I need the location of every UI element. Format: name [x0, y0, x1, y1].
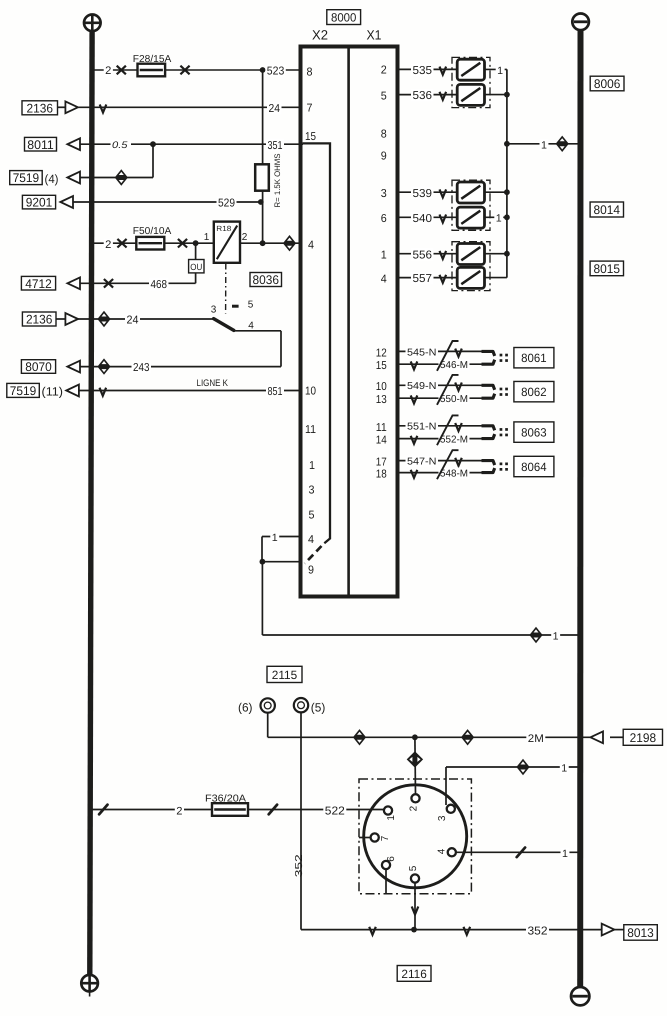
wire number 535: [411, 64, 434, 77]
off-page ref box 2136 (top): [22, 101, 58, 115]
svg-text:8036: 8036: [253, 273, 280, 287]
off-page arrow 9201: [60, 196, 73, 208]
drop from ring 6: [267, 712, 269, 737]
OU alternative box: [189, 260, 204, 273]
svg-text:15: 15: [305, 131, 316, 143]
wire 557 output: [485, 277, 507, 279]
wire to X2 pin 9: [262, 561, 301, 563]
inline connector diamond on ground link: [529, 627, 542, 643]
svg-text:1: 1: [497, 65, 503, 77]
wire 2: +bus to relay R18 pin 1: [92, 242, 214, 244]
svg-text:(4): (4): [45, 172, 59, 186]
junction OU branch: [193, 240, 199, 246]
wire number 24: [125, 314, 140, 327]
pin 6 drop: [385, 869, 387, 893]
connector V mark: [100, 105, 107, 113]
battery negative terminal bottom-right: [571, 987, 589, 1005]
connector V mark on 556: [440, 251, 447, 259]
ref box 8036: [250, 273, 282, 287]
wire number 551-N: [406, 421, 439, 433]
connector V mark 551-N: [455, 423, 462, 431]
off-page ref box 8070: [21, 360, 55, 374]
svg-text:7519: 7519: [10, 384, 37, 398]
svg-text:546-M: 546-M: [440, 360, 468, 371]
drop to pin 3: [445, 767, 447, 805]
ECU internal link box: [303, 143, 330, 543]
wire label 1 on ground link: [551, 630, 560, 642]
riser joining 8011 wire: [152, 144, 154, 177]
drop to ground link wire: [261, 562, 263, 635]
twisted pair slash 8063: [437, 415, 459, 445]
wire number 351: [266, 139, 284, 152]
battery negative terminal top-right: [572, 13, 589, 30]
branch to connector pin 2: [414, 737, 417, 794]
splice X on F50 wire: [117, 239, 126, 248]
svg-text:2115: 2115: [272, 668, 298, 682]
connector 2116 pin 5: [411, 874, 419, 882]
splice slash after bus: [99, 805, 107, 815]
wire 552-M: X1 to sensor 8063: [398, 438, 482, 440]
connector dots 8063: [500, 428, 503, 431]
svg-text:7: 7: [380, 835, 391, 841]
svg-text:352: 352: [528, 925, 548, 937]
svg-text:11: 11: [305, 424, 316, 436]
branch wire resistor to relay output: [262, 191, 264, 243]
wire 547-N: X1 to sensor 8064: [398, 460, 482, 462]
connector 2116 dash-dot box: [359, 779, 471, 894]
wire 24: to ECU X2 pin 7: [78, 106, 301, 108]
wire 7519-4 to junction: [80, 177, 153, 179]
wire 548-M: X1 to sensor 8064: [398, 472, 482, 474]
splice X on wire 523: [117, 66, 126, 75]
inline diamond 1 on 2M wire: [353, 729, 366, 745]
off-page arrow 8011: [67, 138, 80, 150]
svg-text:545-N: 545-N: [407, 347, 437, 358]
wire label 1 (pin4 wire): [561, 848, 570, 860]
svg-text:8061: 8061: [521, 351, 547, 365]
branch to OU box: [195, 243, 197, 259]
svg-text:R= 1.5K OHMS: R= 1.5K OHMS: [273, 154, 282, 208]
svg-text:10: 10: [376, 381, 387, 393]
connector dots 8062: [500, 388, 503, 391]
wire number 546-M: [439, 359, 470, 371]
battery positive terminal bottom-left: [81, 975, 98, 992]
wire 546-M: X1 to sensor 8061: [398, 363, 482, 365]
wire 536: X1 to injector: [398, 94, 459, 96]
svg-text:523: 523: [267, 66, 285, 78]
wire number 545-N: [406, 346, 439, 358]
connector V mark 550-M: [411, 395, 418, 403]
connector V mark 546-M: [411, 361, 418, 369]
off-page ref box 7519 (11): [7, 383, 40, 397]
svg-text:5: 5: [309, 510, 315, 522]
svg-text:8013: 8013: [627, 926, 654, 940]
connector V mark on 557: [440, 275, 447, 283]
connector hook 552-M: [482, 434, 495, 439]
connector V mark 545-N: [455, 349, 462, 357]
svg-text:24: 24: [127, 315, 140, 327]
wire number 352: [526, 924, 549, 937]
svg-text:851: 851: [268, 386, 283, 398]
svg-text:536: 536: [413, 90, 433, 102]
wire contact4 horizontal: [234, 330, 281, 332]
svg-text:12: 12: [376, 347, 387, 359]
wire label 1 on 535 output: [496, 64, 505, 76]
wire number 557: [411, 272, 434, 285]
svg-text:550-M: 550-M: [440, 394, 468, 405]
junction 540: [504, 214, 510, 220]
wire pin 4 to right bus: [456, 851, 578, 853]
wire 2/522: +bus to connector pin 1: [92, 809, 384, 811]
connector 2116 pin 7: [371, 833, 379, 841]
svg-text:1: 1: [562, 848, 568, 860]
svg-text:2M: 2M: [528, 733, 544, 745]
connector dots 8064: [500, 463, 503, 466]
twisted pair slash 8061: [437, 341, 459, 371]
wire number 550-M: [439, 393, 470, 405]
wire number 548-M: [439, 468, 470, 480]
terminal ring (5): [294, 698, 308, 712]
wire 551-N: X1 to sensor 8063: [398, 425, 482, 427]
junction 8011/7519 branch: [150, 141, 156, 147]
sensor ref box 8063: [514, 422, 554, 442]
sensor ref box 8064: [514, 456, 554, 476]
connector 2116 pin 4: [448, 848, 456, 856]
wire 851 LIGNE K: [79, 390, 301, 392]
connector V mark on 535: [440, 67, 447, 75]
relay switch blade: [214, 319, 234, 331]
svg-text:1: 1: [309, 460, 315, 472]
off-page ref box 9201: [22, 195, 55, 209]
svg-text:4: 4: [381, 274, 388, 286]
connector V mark pin5 drop: [412, 907, 419, 915]
svg-text:R18: R18: [216, 224, 231, 233]
inline connector diamond to pin4: [283, 235, 296, 251]
connector V mark 1: [369, 927, 376, 935]
svg-text:8064: 8064: [521, 460, 547, 474]
svg-text:2: 2: [408, 805, 419, 811]
wire 540 output: [485, 216, 507, 218]
inline connector diamond: [115, 169, 128, 185]
svg-text:2136: 2136: [26, 313, 53, 327]
svg-text:557: 557: [413, 273, 433, 285]
inline connector diamond to ground bus: [556, 136, 569, 152]
wire to connector pin 3: [446, 766, 578, 768]
sensor ref box 8061: [514, 348, 554, 368]
splice X after fuse F50: [178, 239, 187, 248]
connector V mark on 540: [440, 215, 447, 223]
wire label 1 (pin3 wire): [560, 762, 569, 774]
wire number 523: [265, 64, 286, 77]
svg-text:1: 1: [204, 232, 210, 243]
svg-text:LIGNE K: LIGNE K: [197, 378, 229, 389]
off-page ref box 4712: [21, 276, 55, 290]
svg-text:3: 3: [381, 188, 387, 200]
svg-text:(11): (11): [42, 385, 64, 399]
off-page ref box 7519: [10, 171, 43, 185]
svg-text:539: 539: [413, 188, 433, 200]
wire label 2M: [526, 732, 545, 744]
connector V mark 549-N: [455, 383, 462, 391]
junction 529/resistor branch: [258, 199, 264, 205]
battery positive terminal top-left: [84, 14, 101, 31]
svg-text:8063: 8063: [521, 426, 547, 440]
wire 243: [80, 366, 281, 368]
wire 550-M: X1 to sensor 8062: [398, 397, 482, 399]
injector collector line: [506, 69, 508, 277]
wire number 556: [411, 248, 434, 261]
svg-text:F28/15A: F28/15A: [133, 54, 172, 65]
svg-text:24: 24: [269, 103, 281, 115]
off-page arrow 7519-4: [67, 172, 80, 184]
svg-text:540: 540: [413, 213, 433, 225]
pin 7 stub: [359, 837, 371, 839]
wire 539: X1 to injector: [398, 191, 459, 193]
connector V mark on 539: [440, 189, 447, 197]
left +12V bus: [90, 31, 92, 975]
splice slash after fuse: [269, 805, 277, 815]
off-page arrow 2136 top: [65, 101, 78, 113]
wire 0.5/351: to ECU X2 pin 15: [80, 143, 303, 145]
wire 2M to connector 2198: [268, 736, 591, 738]
wire gauge label 2: [175, 805, 184, 817]
svg-text:15: 15: [376, 360, 387, 372]
fuse F36/20A: [212, 803, 248, 816]
svg-text:352: 352: [294, 854, 305, 878]
ECU internal link dashed diagonal: [305, 546, 322, 564]
wire number 536: [411, 89, 434, 102]
terminal ring (6): [261, 698, 275, 712]
wire 556: X1 to injector: [398, 253, 459, 255]
relay R18 box: [214, 222, 240, 263]
stub box to arrow: [56, 318, 65, 320]
wire number 468: [149, 278, 169, 291]
right ground bus: [577, 30, 583, 987]
splice X after fuse F28: [180, 66, 189, 75]
connector V mark 548-M: [411, 470, 418, 478]
wire label 1 (pin4): [270, 532, 279, 544]
junction relay output / resistor branch: [260, 240, 266, 246]
svg-text:547-N: 547-N: [407, 457, 437, 468]
stub to 8013 box: [614, 929, 624, 931]
svg-text:(6): (6): [238, 700, 253, 714]
off-page arrow 8070: [67, 361, 80, 373]
svg-text:551-N: 551-N: [407, 422, 437, 433]
branch wire 523 to resistor: [262, 70, 264, 166]
inline diamond 2 on 2M wire: [461, 729, 474, 745]
wire label 1: [540, 139, 549, 151]
svg-text:F50/10A: F50/10A: [133, 226, 172, 237]
connector hook 550-M: [482, 394, 495, 399]
connector V mark 552-M: [411, 436, 418, 444]
relay winding diagonal: [217, 226, 237, 260]
wire relay pin2 to X2 pin 4: [240, 242, 301, 244]
svg-text:8070: 8070: [25, 360, 52, 374]
sensor ref box 8062: [514, 381, 554, 401]
wire number 539: [411, 187, 434, 200]
injection resistor pair 2 (539/540): [452, 180, 490, 230]
wire 539 output: [485, 191, 507, 193]
svg-text:8000: 8000: [331, 11, 357, 25]
off-page arrow 2136 second: [65, 313, 78, 325]
svg-text:522: 522: [325, 805, 345, 817]
connector hook 548-M: [482, 468, 495, 473]
svg-text:548-M: 548-M: [440, 469, 468, 480]
wire 549-N: X1 to sensor 8062: [398, 384, 482, 386]
svg-text:X2: X2: [312, 28, 328, 43]
off-page arrow 8013: [602, 924, 615, 936]
wire size label 0.5: [111, 140, 132, 151]
off-page ref box 8013: [624, 925, 658, 941]
svg-text:7: 7: [307, 103, 313, 115]
svg-text:8011: 8011: [27, 138, 54, 152]
ref box 8015: [590, 261, 623, 276]
svg-text:468: 468: [151, 279, 168, 291]
wire 1 to X2 pin 4: [262, 536, 301, 538]
connector V mark: [100, 388, 107, 396]
svg-text:9: 9: [308, 565, 314, 577]
contact 5 tick: [232, 305, 239, 308]
svg-text:F36/20A: F36/20A: [205, 793, 246, 804]
wire 24 to relay contact 3: [78, 318, 214, 320]
wire 529: to resistor branch: [73, 201, 261, 203]
svg-text:8: 8: [381, 129, 387, 141]
connector V mark 547-N: [455, 458, 462, 466]
off-page ref box 8011: [25, 137, 57, 151]
svg-text:6: 6: [381, 213, 387, 225]
connector dots 8061: [500, 354, 503, 357]
wire 352 to 8013: [301, 929, 602, 931]
junction pin2 branch: [412, 734, 418, 740]
svg-text:13: 13: [376, 394, 387, 406]
svg-text:529: 529: [218, 198, 235, 210]
svg-text:4712: 4712: [25, 277, 52, 291]
connector V mark 2: [464, 927, 471, 935]
wire contact4 drop: [280, 331, 282, 367]
svg-text:2116: 2116: [401, 967, 427, 981]
svg-text:3: 3: [309, 485, 315, 497]
stub box to arrow: [58, 106, 66, 108]
svg-text:5: 5: [248, 300, 254, 311]
svg-text:3: 3: [437, 815, 448, 821]
svg-text:556: 556: [413, 249, 433, 261]
wire gauge label 2: [104, 238, 113, 250]
corner drop pin4 wire: [261, 537, 263, 562]
svg-text:1: 1: [561, 763, 567, 775]
connector 2116 pin 2: [411, 794, 419, 802]
connector 2116 pin 3: [447, 805, 455, 813]
wire number 549-N: [406, 380, 439, 392]
svg-text:2: 2: [105, 239, 111, 251]
branch OU to wire 468: [195, 273, 197, 283]
svg-text:17: 17: [376, 457, 387, 469]
ground link wire to right bus: [262, 634, 577, 636]
wire 540: X1 to injector: [398, 216, 459, 218]
svg-text:2: 2: [105, 65, 111, 77]
svg-text:5: 5: [381, 91, 387, 103]
ref box 8006: [590, 76, 624, 91]
inline vertical diamond: [407, 751, 423, 767]
wire number 851: [266, 385, 284, 398]
injector feed to ground bus: [507, 143, 578, 145]
svg-text:10: 10: [305, 386, 316, 398]
svg-text:243: 243: [133, 362, 150, 374]
off-page arrow 2198: [590, 731, 603, 743]
svg-text:2198: 2198: [630, 731, 657, 745]
off-page arrow 4712: [67, 277, 80, 289]
inline connector diamond: [97, 358, 110, 374]
off-page ref box 2136 (second): [22, 312, 56, 326]
ECU block outline: [301, 47, 398, 597]
svg-text:6: 6: [386, 856, 397, 862]
svg-text:4: 4: [437, 848, 448, 854]
junction collector/feed: [504, 141, 510, 147]
svg-text:X1: X1: [367, 28, 382, 43]
wire 545-N: X1 to sensor 8061: [398, 350, 482, 352]
svg-text:9: 9: [381, 151, 387, 163]
drop 352 from ring 5: [300, 712, 302, 930]
wire number 540: [411, 212, 434, 225]
wire 2/523: +bus to ECU X2 pin 8: [92, 69, 301, 71]
junction pin5/352: [411, 927, 417, 933]
svg-text:7519: 7519: [13, 171, 40, 185]
wire 557: X1 to injector: [398, 277, 459, 279]
svg-text:2136: 2136: [27, 101, 54, 115]
ref box 2115: [267, 666, 302, 682]
wire 535: X1 to injector: [398, 68, 459, 70]
splice slash pin4 wire: [517, 848, 525, 858]
injection resistor pair 1 (535/536): [452, 57, 490, 107]
connector hook 545-N: [482, 351, 495, 356]
connector hook 547-N: [482, 461, 495, 466]
resistor 1.5K: [255, 164, 269, 190]
wire number 529: [217, 196, 237, 209]
connector 2116 pin 1: [384, 806, 392, 814]
svg-text:8062: 8062: [521, 385, 547, 399]
off-page arrow 7519-11: [66, 385, 79, 397]
wire 556 output: [485, 253, 507, 255]
svg-text:11: 11: [376, 422, 387, 434]
inline connector diamond: [97, 311, 110, 327]
pin 5 drop: [414, 883, 416, 930]
svg-text:1: 1: [272, 532, 278, 544]
svg-text:2: 2: [176, 805, 182, 817]
svg-text:8015: 8015: [594, 262, 621, 276]
inline diamond pin3 wire: [516, 759, 529, 775]
wire number 552-M: [439, 434, 470, 446]
svg-text:535: 535: [413, 65, 433, 77]
junction 523 / resistor branch: [260, 67, 266, 73]
wire number 547-N: [406, 456, 439, 468]
svg-text:3: 3: [211, 305, 217, 316]
svg-text:0.5: 0.5: [112, 140, 128, 151]
wire 536 output: [485, 94, 507, 96]
connector 2116 circle: [364, 785, 467, 888]
relay actuator dash-dot link: [225, 264, 227, 314]
svg-text:9201: 9201: [26, 196, 53, 210]
splice X on wire 468: [104, 279, 113, 288]
svg-text:4: 4: [308, 240, 315, 252]
svg-text:18: 18: [376, 468, 387, 480]
svg-text:8: 8: [307, 67, 313, 79]
svg-text:2: 2: [242, 232, 248, 243]
wire number 522: [323, 804, 346, 817]
injection resistor pair 3 (556/557): [452, 242, 490, 291]
svg-text:8014: 8014: [594, 203, 621, 217]
connector V mark on 536: [440, 92, 447, 100]
fuse F50/10A: [136, 237, 164, 250]
svg-text:(5): (5): [311, 700, 326, 714]
